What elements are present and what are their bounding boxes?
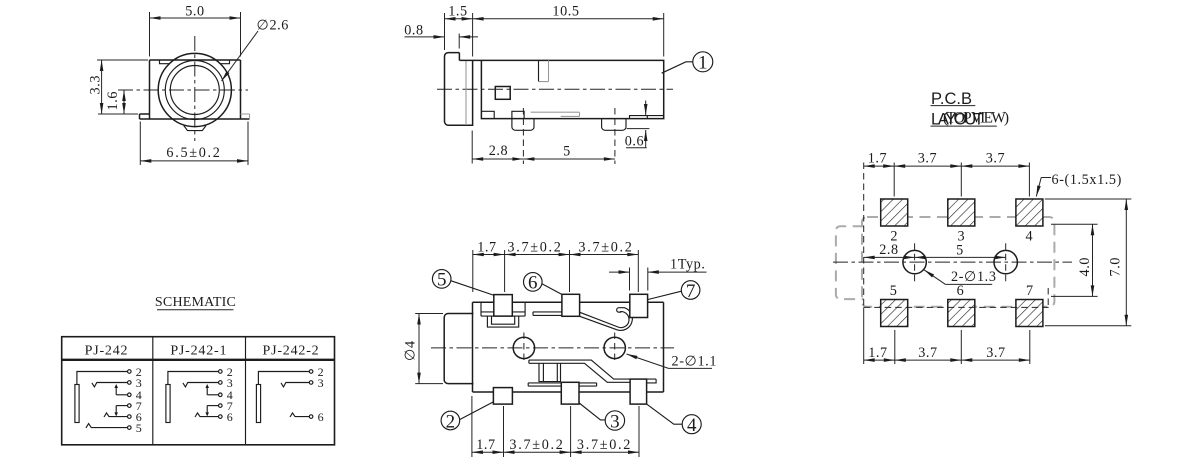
pad 7	[1016, 300, 1043, 327]
component bottom bar	[528, 383, 596, 386]
dimension 3.7±0.2 (bottom a)	[504, 451, 571, 453]
dimension 5 (pcb)	[915, 256, 1006, 258]
hole right	[994, 250, 1017, 273]
svg-text:7: 7	[686, 281, 696, 302]
wire top-left notch	[160, 60, 170, 64]
svg-text:1.7: 1.7	[477, 239, 497, 255]
node pin 4	[219, 393, 223, 397]
node pin 5	[128, 426, 132, 430]
pad 2	[881, 199, 908, 226]
dimension 1.7 (top)	[473, 250, 639, 292]
svg-text:5: 5	[890, 283, 898, 299]
wire pin4	[207, 394, 218, 396]
svg-text:6: 6	[528, 273, 538, 294]
dimension 7.0	[1045, 199, 1132, 326]
svg-text:0.6: 0.6	[625, 134, 645, 150]
node pin 7	[128, 404, 132, 408]
dimension 2.8 (side bottom)	[471, 131, 473, 164]
wire pin7	[207, 405, 218, 407]
pin 3	[561, 382, 579, 404]
pin 4	[630, 379, 647, 404]
dimension 1.6	[123, 90, 125, 114]
svg-text:7: 7	[1026, 283, 1034, 299]
dimension 2.8 (pcb)	[864, 256, 915, 258]
switch lever 3-4	[206, 386, 208, 395]
dimension 1.7 (bottom)	[472, 396, 639, 457]
balloon 3	[605, 411, 624, 430]
svg-text:6.5±0.2: 6.5±0.2	[166, 145, 221, 161]
wire middle channel (gray)	[531, 112, 580, 116]
node pin 6	[219, 415, 223, 419]
component ring contact strip	[529, 360, 656, 383]
wire pin3 with tip contact	[281, 383, 309, 387]
dimension 5.0	[150, 12, 241, 57]
wire slot left of pin6	[533, 312, 562, 316]
dimension 1.7 (pcb bottom)	[895, 330, 1030, 364]
balloon 4	[682, 415, 701, 434]
wire top slot	[538, 60, 540, 81]
dimension 6.5±0.2	[140, 122, 248, 166]
node pin 3	[309, 381, 313, 385]
node pin 6	[309, 415, 313, 419]
switch lever 7-6	[115, 406, 117, 415]
pin B (lead)	[602, 119, 626, 131]
component shield bracket	[481, 302, 525, 316]
svg-text:5: 5	[437, 270, 447, 291]
svg-text:10.5: 10.5	[552, 3, 579, 19]
node pin 7	[219, 404, 223, 408]
svg-text:4: 4	[687, 415, 697, 436]
svg-text:1Typ.: 1Typ.	[670, 257, 706, 273]
svg-text:PJ-242-1: PJ-242-1	[170, 343, 227, 358]
svg-text:2.8: 2.8	[879, 242, 899, 258]
svg-text:3.7±0.2: 3.7±0.2	[577, 437, 632, 453]
svg-text:3.7±0.2: 3.7±0.2	[578, 239, 633, 255]
svg-text:3.7: 3.7	[918, 345, 938, 361]
component sleeve bar	[166, 385, 170, 423]
hole left	[903, 250, 926, 273]
svg-text:(TOP VIEW): (TOP VIEW)	[943, 109, 1009, 126]
svg-text:2.8: 2.8	[489, 143, 509, 159]
pad 5	[881, 300, 908, 327]
svg-text:1.5: 1.5	[448, 3, 468, 19]
wire body outline	[473, 302, 664, 392]
node centerline horizontal	[833, 261, 1072, 263]
svg-text:6: 6	[318, 410, 324, 424]
node centerline	[437, 88, 673, 90]
node pin 2	[219, 370, 223, 374]
svg-text:3: 3	[610, 411, 620, 432]
wire top-right notch	[220, 60, 230, 64]
wire bezel outline	[444, 314, 473, 384]
svg-text:1: 1	[698, 52, 708, 73]
balloon 7	[681, 281, 700, 300]
node pin 2	[309, 370, 313, 374]
svg-text:1.7: 1.7	[868, 150, 888, 166]
pin 2	[493, 388, 512, 405]
wire pin7	[116, 405, 127, 407]
svg-text:3.7: 3.7	[918, 150, 938, 166]
dimension 3.3	[97, 60, 148, 114]
svg-text:∅2.6: ∅2.6	[257, 18, 290, 34]
pad 4	[1016, 199, 1043, 226]
dimension 1.5	[445, 13, 473, 57]
dimension diameter 4	[415, 314, 443, 384]
wire bezel hidden line (gray)	[465, 60, 467, 125]
dimension 1.7 (pcb top)	[894, 163, 1029, 197]
svg-text:1.7: 1.7	[476, 437, 496, 453]
pin 6	[562, 294, 580, 316]
dimension 10.5	[663, 13, 665, 57]
svg-text:2: 2	[446, 411, 456, 432]
svg-text:6: 6	[957, 283, 965, 299]
balloon 5	[432, 270, 451, 289]
wire pin2 to sleeve	[258, 372, 309, 385]
node pin 4	[128, 393, 132, 397]
balloon 1	[693, 52, 713, 72]
pad 6	[948, 300, 975, 327]
svg-text:2-∅1.3: 2-∅1.3	[951, 269, 997, 285]
component anchor square	[495, 87, 510, 100]
svg-text:PJ-242-2: PJ-242-2	[263, 343, 320, 358]
wire body outline	[459, 60, 663, 118]
hole left	[513, 337, 534, 358]
svg-text:5: 5	[563, 143, 571, 159]
wire pin5 with contact	[86, 424, 128, 428]
component tip spring contact	[580, 308, 633, 331]
node pin 6	[128, 415, 132, 419]
table frame	[62, 337, 335, 445]
svg-text:3.7: 3.7	[986, 150, 1006, 166]
svg-text:3.7: 3.7	[986, 345, 1006, 361]
wire pin6 with ring contact	[104, 413, 128, 417]
node bezel outline (gray dashed)	[836, 226, 864, 299]
pin 5	[494, 295, 513, 317]
svg-text:3.7±0.2: 3.7±0.2	[507, 239, 562, 255]
balloon 6	[524, 273, 543, 292]
dimension 3.7 (pcb top b)	[961, 165, 1029, 167]
pin A (lead)	[512, 119, 534, 131]
svg-text:6: 6	[227, 410, 233, 424]
node centerline horizontal	[431, 347, 674, 349]
switch lever 3-4	[115, 386, 117, 395]
svg-text:6-(1.5x1.5): 6-(1.5x1.5)	[1052, 172, 1122, 188]
svg-text:5: 5	[136, 421, 142, 435]
wire pin4	[116, 394, 127, 396]
svg-text:1.7: 1.7	[868, 345, 888, 361]
svg-text:1.6: 1.6	[105, 91, 121, 111]
wire pin6 with ring contact	[195, 413, 219, 417]
node centerline horizontal	[118, 89, 248, 91]
svg-text:4: 4	[1026, 229, 1034, 245]
node pin A centerline	[522, 108, 524, 164]
component shield cup	[487, 316, 518, 327]
wire pin2 to sleeve	[77, 372, 128, 385]
switch lever 7-6	[206, 406, 208, 415]
balloon 2	[441, 411, 460, 430]
dimension 3.7 (pcb top a)	[894, 165, 961, 167]
component sleeve bar	[256, 385, 260, 423]
node body outline (black dashed)	[864, 163, 1049, 308]
dimension 3.7±0.2 (top b)	[570, 254, 639, 256]
wire right flange step (gray)	[241, 114, 250, 119]
wire body square outline	[140, 60, 250, 119]
svg-text:4.0: 4.0	[1077, 257, 1093, 277]
node pin 3	[219, 381, 223, 385]
svg-text:3.3: 3.3	[88, 75, 104, 95]
node pcb outline (gray dashed)	[862, 217, 1054, 307]
component sleeve bar	[75, 385, 79, 423]
svg-text:0.8: 0.8	[404, 22, 424, 38]
svg-text:3: 3	[318, 376, 324, 390]
svg-text:5: 5	[956, 242, 964, 258]
node middle circle	[165, 61, 224, 120]
svg-text:7.0: 7.0	[1108, 257, 1124, 277]
node centerline vertical	[194, 36, 196, 141]
dimension 5 (side bottom)	[523, 158, 615, 160]
hole right	[604, 337, 625, 358]
wire pin2 to sleeve	[168, 372, 219, 385]
wire pin3 with tip contact	[92, 383, 128, 387]
dimension 3.7 (pcb bottom a)	[895, 359, 962, 361]
node pin B centerline	[614, 108, 616, 164]
wire bottom-left step	[481, 111, 494, 118]
dimension 3.7 (pcb bottom b)	[961, 359, 1030, 361]
pad 3	[948, 199, 975, 226]
component contact anchor square	[539, 363, 561, 381]
node pin 2	[128, 370, 132, 374]
svg-text:5.0: 5.0	[185, 3, 205, 19]
svg-text:2-∅1.1: 2-∅1.1	[672, 354, 718, 370]
wire bezel outline	[445, 53, 473, 126]
wire pin6 with ring contact	[290, 413, 309, 417]
node pin 3	[128, 381, 132, 385]
svg-text:∅4: ∅4	[403, 340, 419, 361]
dimension 3.7±0.2 (top a)	[505, 254, 570, 256]
node inner circle	[170, 66, 219, 115]
node outer circle	[158, 53, 231, 126]
dimension 3.7±0.2 (bottom b)	[571, 451, 639, 453]
wire pin3 with tip contact	[183, 383, 219, 387]
wire pin A step	[512, 111, 524, 118]
dimension 4.0	[1051, 224, 1098, 296]
wire bottom tab	[184, 126, 206, 131]
svg-text:3.7±0.2: 3.7±0.2	[509, 437, 564, 453]
wire bottom-right step	[630, 116, 664, 119]
svg-text:PJ-242: PJ-242	[85, 343, 129, 358]
pin 7	[630, 294, 648, 317]
svg-text:SCHEMATIC: SCHEMATIC	[155, 295, 236, 310]
dimension 1Typ.	[630, 268, 648, 291]
